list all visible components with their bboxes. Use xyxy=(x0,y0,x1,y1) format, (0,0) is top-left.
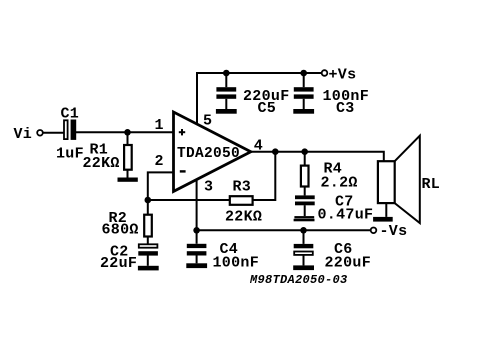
svg-text:1: 1 xyxy=(155,117,164,134)
svg-text:C5: C5 xyxy=(258,100,277,117)
svg-text:C3: C3 xyxy=(336,100,355,117)
svg-text:+Vs: +Vs xyxy=(329,67,357,84)
svg-text:TDA2050: TDA2050 xyxy=(177,146,240,162)
svg-text:2.2Ω: 2.2Ω xyxy=(321,175,358,192)
svg-text:-Vs: -Vs xyxy=(380,223,408,240)
svg-text:220uF: 220uF xyxy=(325,255,372,272)
svg-text:3: 3 xyxy=(204,179,213,196)
svg-text:22uF: 22uF xyxy=(100,255,137,272)
svg-text:R3: R3 xyxy=(233,179,252,196)
svg-text:5: 5 xyxy=(203,112,212,129)
svg-text:2: 2 xyxy=(155,153,164,170)
svg-text:Vi: Vi xyxy=(14,126,33,143)
svg-text:C1: C1 xyxy=(61,105,80,122)
svg-text:22KΩ: 22KΩ xyxy=(225,209,262,226)
svg-text:M98TDA2050-03: M98TDA2050-03 xyxy=(249,273,348,287)
svg-text:680Ω: 680Ω xyxy=(102,222,139,239)
svg-text:0.47uF: 0.47uF xyxy=(318,206,374,223)
svg-text:100nF: 100nF xyxy=(213,255,260,272)
svg-text:1uF: 1uF xyxy=(56,145,84,162)
svg-text:22KΩ: 22KΩ xyxy=(83,155,120,172)
svg-text:4: 4 xyxy=(254,137,263,154)
svg-text:RL: RL xyxy=(422,176,441,193)
